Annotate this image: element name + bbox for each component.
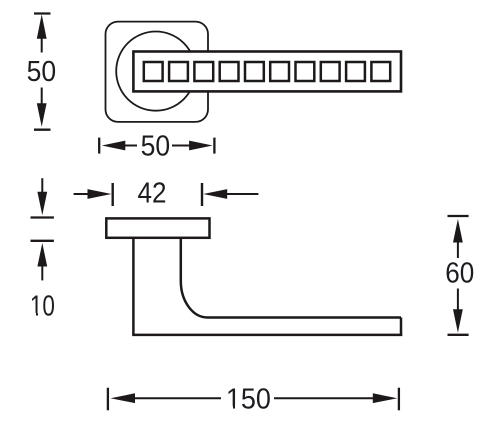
- neck right edge with curve into lever top: [181, 238, 401, 318]
- square hole 8: [321, 62, 340, 81]
- dimension 50 horizontal: left tick: [98, 138, 100, 154]
- square hole 3: [194, 62, 213, 81]
- dimension 42: right outside shaft: [227, 193, 259, 195]
- square hole 4: [220, 62, 239, 81]
- svg-text:42: 42: [138, 178, 167, 210]
- dimension 42: left tick: [111, 183, 113, 206]
- dimension 50 vertical: down arrow: [37, 103, 47, 127]
- rose plate front view (rounded square): [106, 22, 209, 122]
- dimension 60: up arrow: [453, 219, 463, 243]
- dimension 60: bottom tick: [448, 334, 469, 336]
- dimension 10: top tick: [31, 216, 54, 218]
- square hole 5: [245, 62, 264, 81]
- dimension 150: left arrow: [111, 393, 136, 403]
- svg-text:50: 50: [141, 131, 171, 163]
- dimension 50 horizontal: right shaft: [172, 145, 190, 147]
- svg-text:60: 60: [445, 258, 474, 290]
- square hole 6: [270, 62, 289, 81]
- neck left edge: [132, 238, 135, 335]
- dimension 150: left tick: [107, 388, 109, 411]
- dimension 10: bottom tick: [31, 240, 54, 242]
- dimension 50 horizontal: left shaft: [124, 145, 137, 147]
- dimension 50 vertical: up arrow: [37, 14, 47, 39]
- lever bar front view: [133, 52, 401, 92]
- dimension 50 vertical: top tick: [34, 12, 51, 14]
- dimension 150: right shaft: [274, 397, 374, 399]
- dimension 50 horizontal: right tick: [213, 138, 215, 154]
- dimension 60: top tick: [448, 215, 469, 217]
- dimension 42: left arrow pointing right: [88, 189, 112, 199]
- square hole 1: [144, 62, 163, 81]
- dimension 10: lower shaft: [41, 265, 43, 280]
- dimension 10: down arrow pointing to top tick: [37, 192, 47, 216]
- rose plate side view: [106, 218, 209, 237]
- dimension 42: right tick: [201, 183, 203, 206]
- dimension 50 horizontal: right arrow: [189, 141, 213, 151]
- dimension 150: left shaft: [134, 397, 221, 399]
- dimension 42: left outside shaft: [74, 193, 88, 195]
- square hole 10: [371, 62, 390, 81]
- dimension 60: down arrow: [453, 309, 463, 333]
- square hole 2: [169, 62, 188, 81]
- svg-text:10: 10: [30, 291, 55, 323]
- dimension 60: lower shaft: [457, 289, 459, 311]
- lever end edge: [400, 318, 403, 336]
- svg-text:150: 150: [226, 384, 271, 416]
- dimension 50 vertical: bottom tick: [34, 129, 51, 131]
- dimension 10: up arrow pointing to bottom tick: [37, 243, 47, 267]
- dimension 50 horizontal: left arrow: [102, 141, 126, 151]
- dimension 50 vertical: upper shaft: [41, 37, 43, 53]
- mask to remove foot serif of digit 1 in label 150: [226, 406, 233, 411]
- lever bottom edge: [132, 334, 402, 337]
- rose circle boss: [116, 32, 195, 111]
- mask to remove foot serif of digit 1 in label 10: [31, 313, 36, 318]
- square hole 9: [346, 62, 365, 81]
- dimension 42: right arrow pointing left: [203, 189, 227, 199]
- dimension 50 vertical: lower shaft: [41, 88, 43, 105]
- square hole 7: [296, 62, 315, 81]
- dimension 60: upper shaft: [457, 240, 459, 258]
- dimension 150: right arrow: [373, 393, 398, 403]
- dimension 150: right tick: [398, 388, 400, 411]
- dimension 10: upper shaft: [41, 178, 43, 193]
- svg-text:50: 50: [27, 56, 57, 88]
